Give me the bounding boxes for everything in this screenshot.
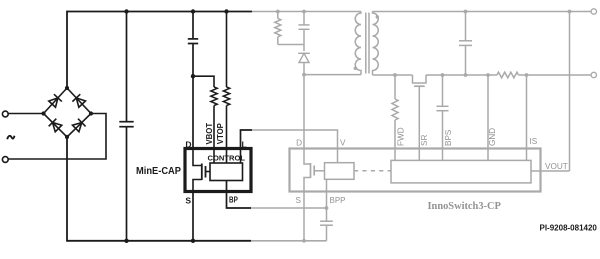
svg-text:BP: BP bbox=[229, 196, 238, 205]
clamp capacitor C3 bbox=[303, 12, 305, 25]
svg-text:VTOP: VTOP bbox=[216, 123, 225, 144]
svg-text:FWD: FWD bbox=[397, 127, 406, 146]
wire bridge top node to top rail bbox=[66, 11, 68, 88]
synchronous rectifier MOSFET Q1 bbox=[413, 75, 427, 83]
wire secondary return rail (right of SR FET) bbox=[426, 74, 497, 76]
svg-text:MinE-CAP: MinE-CAP bbox=[136, 166, 181, 177]
svg-text:PI-9208-081420: PI-9208-081420 bbox=[540, 223, 598, 232]
output capacitor C5 bbox=[464, 10, 468, 14]
wire VOUT feedback (top rail to VOUT pin) bbox=[568, 10, 572, 14]
transformer T1 core bbox=[365, 13, 367, 74]
wire MinE-CAP L pin to InnoSwitch V (black part) bbox=[241, 130, 253, 149]
dashed link primary to secondary controller bbox=[354, 170, 391, 172]
internal MOSFET of InnoSwitch bbox=[304, 149, 311, 165]
svg-text:S: S bbox=[185, 196, 191, 206]
wire VOUT pin from secondary block bbox=[531, 170, 570, 172]
AC input terminal N (bottom) bbox=[2, 157, 8, 163]
wire AC N to bridge right node bbox=[8, 114, 106, 160]
node FWD branch bbox=[393, 73, 397, 77]
capacitor C4 BPS bbox=[442, 75, 444, 106]
svg-text:S: S bbox=[296, 196, 302, 205]
svg-text:BPP: BPP bbox=[330, 196, 346, 205]
wire bottom rail (gray section) bbox=[251, 240, 327, 242]
node dots on bridge bbox=[65, 86, 69, 90]
primary controller block bbox=[325, 163, 355, 180]
wire InnoSwitch S pin to bottom rail bbox=[303, 192, 305, 241]
wire GND pin branch bbox=[486, 73, 490, 77]
wire top rail (rectified HV bus, black section) bbox=[67, 11, 252, 13]
wire junction down to InnoSwitch D pin bbox=[303, 75, 305, 150]
transformer T1 secondary winding bbox=[373, 12, 379, 76]
wire AC L to bridge left node bbox=[8, 113, 43, 115]
capacitor C6 BPP bbox=[326, 192, 328, 222]
wire L pin into control block bbox=[240, 150, 242, 163]
bridge diode D4 (bottom node to right node) bbox=[72, 119, 86, 133]
wire top rail (gray section to transformer) bbox=[252, 11, 361, 13]
wire V pin into primary block bbox=[337, 149, 339, 163]
node clamp/primary junction bbox=[302, 73, 306, 77]
clamp diode D5 (pointing up) bbox=[303, 45, 305, 52]
AC input terminal L (top) bbox=[2, 111, 8, 117]
wire bridge bottom node to bottom rail bbox=[66, 137, 68, 242]
transformer polarity dot primary bbox=[354, 67, 357, 70]
svg-text:BPS: BPS bbox=[444, 129, 453, 146]
svg-text:D: D bbox=[185, 140, 191, 150]
bridge diode D1 (left node to top node) bbox=[48, 94, 62, 108]
wires top pins into secondary block bbox=[394, 149, 396, 161]
wire secondary return rail (left of SR FET) bbox=[373, 74, 413, 76]
resistor R2 VTOP sense bbox=[226, 12, 228, 88]
IC U2 InnoSwitch3-CP box bbox=[290, 149, 541, 192]
wire MinE-CAP BP pin out bbox=[227, 181, 252, 209]
svg-text:D: D bbox=[296, 139, 302, 148]
wire junction to VBOT resistor bbox=[193, 76, 214, 87]
wire clamp RC join bbox=[278, 44, 304, 46]
svg-text:InnoSwitch3-CP: InnoSwitch3-CP bbox=[428, 201, 502, 212]
wire BP to BPP (gray section) bbox=[251, 207, 327, 209]
output terminal - (right) bbox=[591, 72, 596, 77]
wire IS pin branch bbox=[525, 73, 529, 77]
svg-text:VOUT: VOUT bbox=[545, 162, 568, 171]
AC source symbol ~ bbox=[7, 136, 14, 140]
control block inside MinE-CAP bbox=[210, 163, 243, 181]
secondary controller block bbox=[391, 160, 531, 183]
wire secondary top rail bbox=[373, 11, 592, 13]
svg-text:V: V bbox=[340, 139, 346, 148]
wire VTOP pin into control block bbox=[226, 150, 228, 163]
IC U1 MinE-CAP box bbox=[185, 149, 251, 192]
bridge diode D2 (right node to top node) bbox=[72, 94, 86, 108]
wire BPP pin from primary block bbox=[326, 179, 328, 191]
bridge diode D3 (bottom node to left node) bbox=[49, 119, 63, 133]
output terminal + (top right) bbox=[591, 9, 596, 14]
wire VBOT pin into control block bbox=[213, 150, 215, 163]
svg-text:IS: IS bbox=[530, 137, 538, 146]
current sense resistor R4 in rail bbox=[497, 72, 519, 78]
bulk capacitor C1 (across rails) bbox=[126, 12, 128, 122]
wire MinE-CAP S pin to bottom rail bbox=[192, 192, 194, 241]
svg-text:VBOT: VBOT bbox=[205, 123, 214, 145]
internal MOSFET of MinE-CAP bbox=[193, 149, 202, 166]
node junction on drain branch bbox=[191, 74, 195, 78]
wire bottom rail (primary return, black section) bbox=[67, 240, 251, 242]
resistor R1 VBOT sense bbox=[211, 87, 217, 106]
node BPS branch bbox=[441, 73, 445, 77]
capacitor C2 on MinE-CAP drain branch bbox=[192, 12, 194, 39]
clamp resistor R3 bbox=[277, 12, 279, 19]
wire L to V pin (gray section) bbox=[252, 130, 338, 150]
svg-text:GND: GND bbox=[488, 128, 497, 146]
svg-text:SR: SR bbox=[420, 135, 429, 146]
transformer T1 primary winding bbox=[355, 12, 361, 75]
wire junction to transformer primary bottom bbox=[304, 74, 361, 76]
resistor R5 FWD bbox=[394, 75, 396, 99]
bridge rectifier BR1 diamond wires bbox=[44, 88, 92, 137]
transformer polarity dot secondary bbox=[376, 15, 379, 18]
svg-text:L: L bbox=[242, 140, 247, 150]
